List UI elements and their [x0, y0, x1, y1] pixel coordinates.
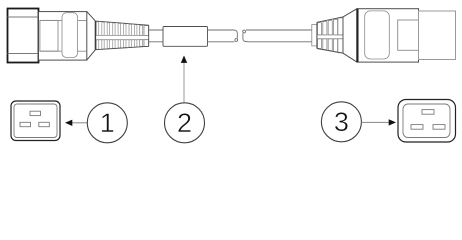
cable segment C — [246, 30, 312, 42]
cable break right — [243, 30, 246, 33]
right face (light) — [419, 11, 456, 60]
svg-text:2: 2 — [177, 108, 192, 138]
arrow 1 — [72, 122, 88, 124]
callout circle 2 — [165, 103, 205, 143]
cable ferrule — [163, 27, 208, 47]
arrow 3 — [361, 121, 389, 123]
cable segment A — [149, 30, 163, 42]
left body interior lines — [40, 20, 87, 51]
right strain relief ribs — [317, 17, 343, 53]
left strain relief ribs — [95, 21, 148, 50]
left taper — [87, 12, 96, 61]
svg-text:1: 1 — [100, 108, 115, 138]
rib slots upper — [96, 22, 137, 50]
callout circle 1 — [87, 103, 127, 143]
C19 receptacle front view — [11, 101, 60, 141]
C20 plug front view — [398, 100, 456, 143]
right body capsule — [365, 11, 390, 59]
right taper — [343, 9, 357, 62]
left plug face block — [8, 9, 39, 63]
last band — [338, 18, 343, 35]
left plug body — [39, 12, 87, 61]
svg-text:3: 3 — [334, 107, 349, 137]
right neck — [312, 25, 317, 46]
cable break left — [233, 30, 237, 38]
arrow 2 — [183, 63, 185, 103]
callout circle 3 — [321, 102, 361, 142]
left body capsule slot — [62, 13, 78, 58]
cable segment B — [208, 30, 235, 42]
rib zone boundary — [317, 17, 343, 53]
rib zone boundary — [95, 21, 148, 50]
last bands — [140, 25, 143, 35]
rib slots lower — [96, 40, 98, 50]
left body inner rect — [40, 20, 58, 51]
right body inner rect — [398, 20, 419, 50]
right body — [357, 9, 419, 62]
